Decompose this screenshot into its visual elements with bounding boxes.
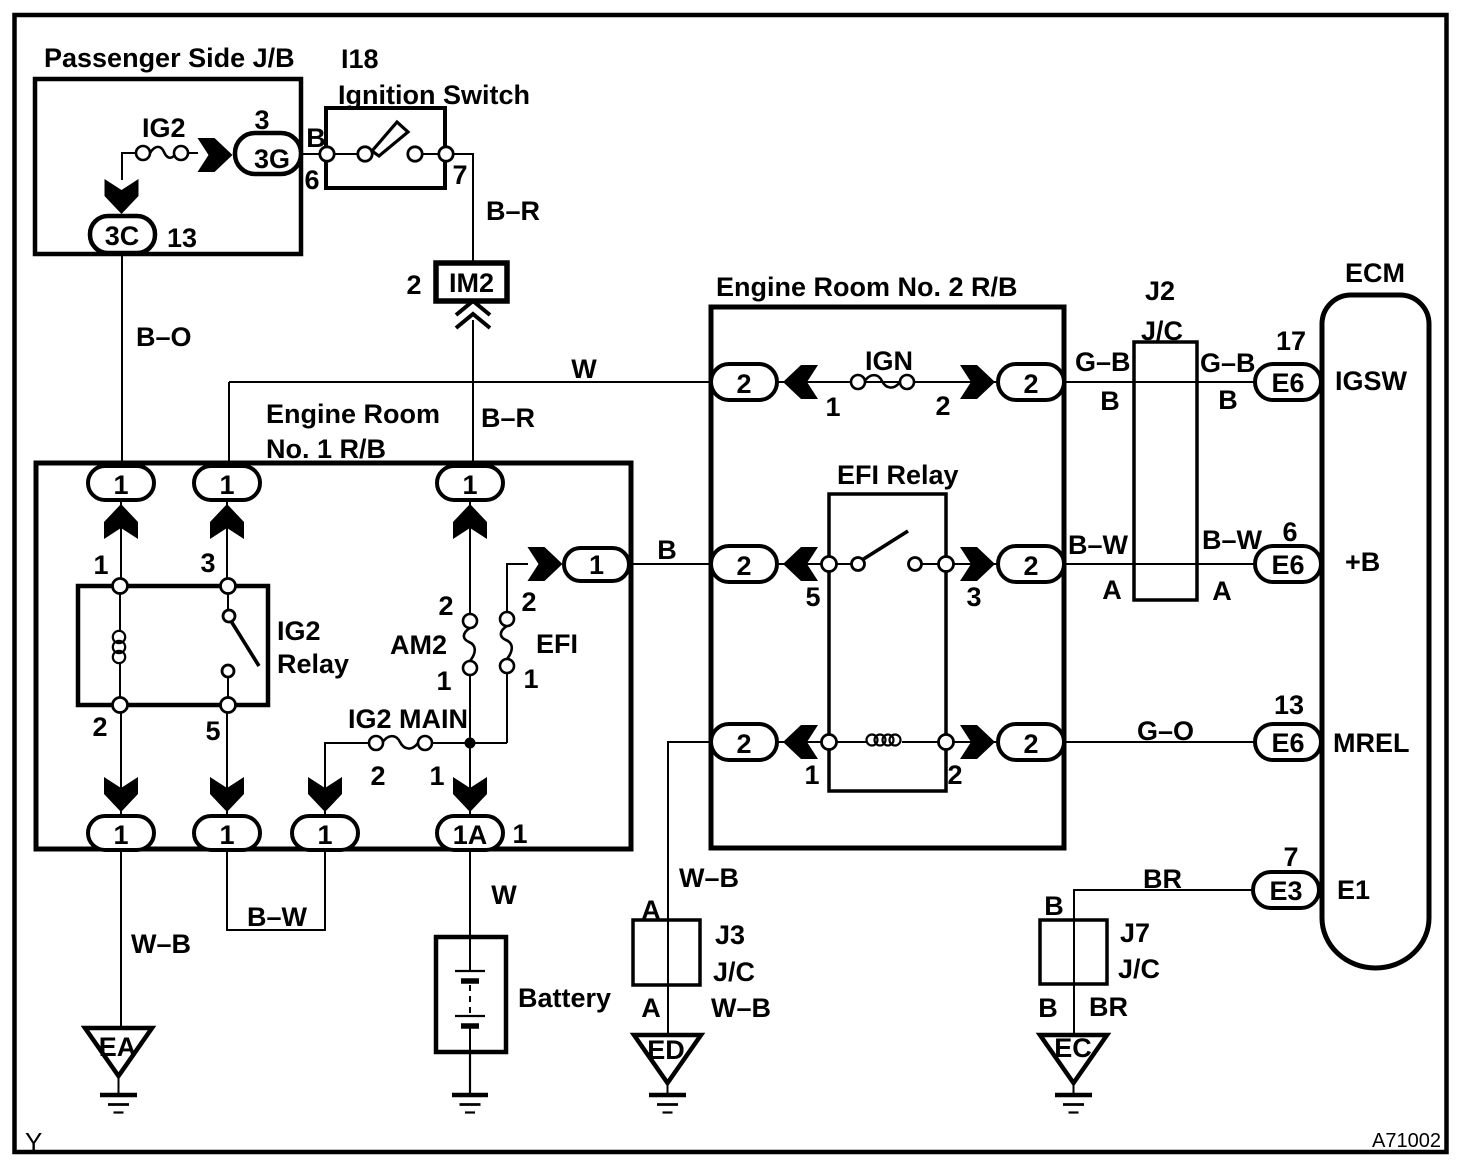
wire row2 B-W through J2 to E6 [1064,563,1255,565]
svg-text:Passenger Side J/B: Passenger Side J/B [44,43,295,73]
wire row3 inside [744,741,866,743]
connector E3 [1253,872,1319,908]
svg-text:1A: 1A [453,820,488,850]
wire AM2 branch [469,466,471,614]
svg-text:ED: ED [647,1035,685,1065]
svg-text:2: 2 [935,391,950,421]
svg-text:No. 1 R/B: No. 1 R/B [266,434,386,464]
svg-text:3G: 3G [254,144,290,174]
wire B-R IM2 to Engine Room No.1 R/B [472,320,474,464]
down arrow pin5 [210,777,244,812]
relay IG2 terminals [113,579,236,713]
svg-text:B–O: B–O [136,322,192,352]
svg-text:Y: Y [25,1127,42,1157]
svg-text:I18: I18 [341,44,379,74]
connector IM2 [436,263,507,301]
fuse IG2 MAIN [369,736,432,750]
svg-text:G–O: G–O [1137,716,1194,746]
double chevron under IM2 [456,301,490,328]
relay EFI box [829,494,946,791]
svg-text:J7: J7 [1120,918,1150,948]
svg-text:Battery: Battery [518,983,611,1013]
wire BR from E3 to J7 and EC ground [1074,890,1253,1035]
svg-text:E3: E3 [1269,876,1302,906]
svg-text:A71002: A71002 [1372,1130,1441,1152]
connector 2 row2 right [998,546,1064,582]
svg-text:IG2 MAIN: IG2 MAIN [348,704,468,734]
junction block J3 [633,920,700,985]
wire AM2 to 1A [469,675,471,816]
connector arrow into 3G [198,138,233,172]
svg-text:B–R: B–R [481,403,535,433]
ignition switch terminals [320,147,453,161]
up arrow pin3 [210,504,244,539]
svg-text:G–B: G–B [1200,348,1256,378]
svg-text:1: 1 [804,760,819,790]
svg-text:2: 2 [1023,729,1038,759]
svg-text:Ignition Switch: Ignition Switch [338,80,530,110]
svg-text:Engine Room No. 2 R/B: Engine Room No. 2 R/B [716,272,1018,302]
svg-text:EFI Relay: EFI Relay [837,460,959,490]
svg-text:2: 2 [736,729,751,759]
svg-text:B–W: B–W [247,902,308,932]
svg-text:W–B: W–B [711,993,771,1023]
fuse AM2 [463,614,477,675]
svg-text:13: 13 [167,223,197,253]
svg-text:2: 2 [736,551,751,581]
svg-text:B–W: B–W [1068,530,1129,560]
junction node [465,738,476,749]
svg-text:3: 3 [966,582,981,612]
right arrow row1 [960,365,995,399]
svg-text:1: 1 [93,550,108,580]
svg-text:B: B [1038,993,1058,1023]
connector E6 MREL [1255,724,1321,760]
svg-text:EFI: EFI [536,629,578,659]
battery [436,937,506,1052]
wire relay pin1 branch [120,466,122,586]
down arrow pin2 [104,777,138,812]
relay IG2 switch lever [231,621,259,666]
svg-text:W: W [571,354,597,384]
svg-text:ECM: ECM [1345,258,1405,288]
svg-text:3: 3 [200,548,215,578]
svg-text:AM2: AM2 [390,630,447,660]
svg-text:IM2: IM2 [449,268,494,298]
svg-text:Relay: Relay [277,649,349,679]
svg-text:Engine Room: Engine Room [266,399,440,429]
wire W horizontal from node to Engine Room No.2 R/B [229,381,711,383]
box Engine Room No.1 R/B [36,463,631,849]
svg-text:1: 1 [436,666,451,696]
wire IG2 MAIN right to junction [432,742,507,744]
box I18 Ignition Switch [326,108,445,188]
svg-text:7: 7 [1283,842,1298,872]
svg-text:1: 1 [113,470,128,500]
left arrow row3 [783,725,818,759]
wire row1 inside [744,381,1031,383]
wire W-B row3 to J3 and ED ground [668,742,711,1035]
ECM body [1322,295,1429,968]
down arrow IG2MAIN [308,777,342,812]
wire row3 G-O to E6 [1064,741,1255,743]
svg-text:17: 17 [1276,326,1306,356]
svg-text:B: B [657,535,677,565]
left arrow row2 [783,547,818,581]
wire 3G to ignition switch B [301,153,320,155]
bottom connector 1A [437,816,503,850]
svg-text:5: 5 [205,716,220,746]
relay EFI terminals [822,557,954,750]
svg-text:IG2: IG2 [277,616,321,646]
svg-text:2: 2 [1023,551,1038,581]
svg-text:2: 2 [406,270,421,300]
svg-text:EC: EC [1054,1033,1092,1063]
svg-text:+B: +B [1345,547,1380,577]
wire W box1 to battery [469,849,471,937]
svg-text:B: B [1218,385,1238,415]
fuse IGN [851,375,914,389]
svg-text:BR: BR [1089,992,1128,1022]
svg-text:1: 1 [512,819,527,849]
connector 1 B output [564,548,629,581]
svg-text:2: 2 [736,369,751,399]
down arrow 1A [453,777,487,812]
box Passenger Side J/B [35,79,301,254]
svg-text:6: 6 [1282,517,1297,547]
wire IG2 MAIN left leg [325,743,369,816]
svg-text:5: 5 [805,582,820,612]
ignition switch lever [327,153,446,155]
wire B-R ignition switch 7 to IM2 [454,154,473,263]
connector arrow into 3C [105,179,139,214]
ground EC [1040,1035,1107,1083]
svg-text:13: 13 [1274,690,1304,720]
connector 3C [90,216,155,253]
svg-text:1: 1 [523,664,538,694]
svg-text:B: B [1044,891,1064,921]
relay EFI coil [867,735,901,746]
connector 3G [235,133,301,174]
connector 2 row3 right [998,724,1064,760]
svg-text:2: 2 [521,587,536,617]
right arrow row3 [960,725,995,759]
relay IG2 box [78,586,268,705]
up arrow AM2 [453,504,487,539]
bottom connector 1 (loop left) [194,816,260,850]
wire fuse IG2 to arrow [188,152,198,154]
svg-text:W: W [491,880,517,910]
bottom connector 1 (EA) [88,816,154,850]
connector 2 row1 left [711,364,777,400]
svg-text:2: 2 [92,712,107,742]
box Engine Room No.2 R/B [711,307,1064,848]
svg-text:A: A [641,993,661,1023]
connector E6 +B [1255,546,1321,582]
ground EA [85,1028,152,1076]
svg-text:6: 6 [304,165,319,195]
svg-text:A: A [1102,575,1122,605]
svg-text:2: 2 [947,760,962,790]
svg-text:1: 1 [589,550,604,580]
svg-text:W–B: W–B [679,863,739,893]
svg-text:3: 3 [254,105,269,135]
relay EFI switch lever [862,531,908,560]
svg-text:B: B [1100,386,1120,416]
svg-text:MREL: MREL [1333,728,1410,758]
wire EFI fuse bottom leg [506,673,508,743]
fuse IG2 [136,146,188,160]
wire B from Engine Room No.1 to Engine Room No.2 [629,563,711,565]
wire relay pin5 down [226,705,228,816]
svg-text:B: B [306,123,326,153]
connector 2 row2 left [711,546,777,582]
connector arrow B output [528,547,563,581]
ground below battery [452,1052,488,1113]
svg-text:BR: BR [1143,864,1182,894]
wire relay pin3 branch [226,466,228,586]
wire row2 inside right [922,563,1031,565]
wire W drop to Engine Room No.1 R/B [228,382,230,464]
svg-text:1: 1 [317,820,332,850]
junction block J7 [1040,920,1107,984]
connector E6 IGSW [1255,364,1321,400]
svg-text:J3: J3 [715,920,745,950]
up arrow pin1 [104,504,138,539]
wire row1 G-B through J2 to E6 [1064,381,1255,383]
svg-text:IGN: IGN [865,346,913,376]
relay IG2 coil [113,631,125,663]
svg-text:2: 2 [438,591,453,621]
svg-text:B–W: B–W [1202,525,1263,555]
svg-text:B–R: B–R [486,196,540,226]
svg-text:E6: E6 [1271,368,1304,398]
top connector 1 (pin3) [194,466,260,500]
top connector 1 (AM2) [437,466,503,500]
wire row2 inside left [744,563,851,565]
bottom connector 1 (loop right) [292,816,358,850]
svg-text:E1: E1 [1337,875,1370,905]
junction block J2 [1134,342,1197,600]
right arrow row2 [960,547,995,581]
svg-text:1: 1 [429,761,444,791]
svg-text:1: 1 [825,392,840,422]
connector 2 row1 right [998,364,1064,400]
svg-text:1: 1 [113,820,128,850]
fuse EFI [500,612,514,673]
svg-text:1: 1 [219,470,234,500]
svg-text:IG2: IG2 [142,113,186,143]
svg-text:7: 7 [452,160,467,190]
svg-text:J/C: J/C [1118,954,1160,984]
ground ED [634,1035,701,1083]
wire fuse IG2 left to down arrow [122,153,136,180]
svg-text:EA: EA [99,1032,137,1062]
wire B-W loop below box1 [227,849,325,930]
connector 2 row3 left [711,724,777,760]
svg-text:IGSW: IGSW [1335,366,1408,396]
svg-text:2: 2 [1023,369,1038,399]
svg-text:J/C: J/C [713,957,755,987]
svg-text:E6: E6 [1271,550,1304,580]
svg-text:A: A [1212,576,1232,606]
wire EFI fuse top to output [507,564,528,612]
svg-text:3C: 3C [105,221,140,251]
svg-text:G–B: G–B [1075,347,1131,377]
svg-text:1: 1 [462,470,477,500]
svg-text:2: 2 [370,761,385,791]
wire B-O from 3C to Engine Room No.1 R/B [121,253,123,463]
svg-text:1: 1 [219,820,234,850]
svg-text:E6: E6 [1271,728,1304,758]
wire relay pin2 down [120,705,122,816]
wire W-B below box1 to EA ground [120,849,122,1028]
svg-text:W–B: W–B [131,929,191,959]
svg-text:J2: J2 [1145,276,1175,306]
top connector 1 (pin1) [88,466,154,500]
left arrow row1 [783,365,818,399]
